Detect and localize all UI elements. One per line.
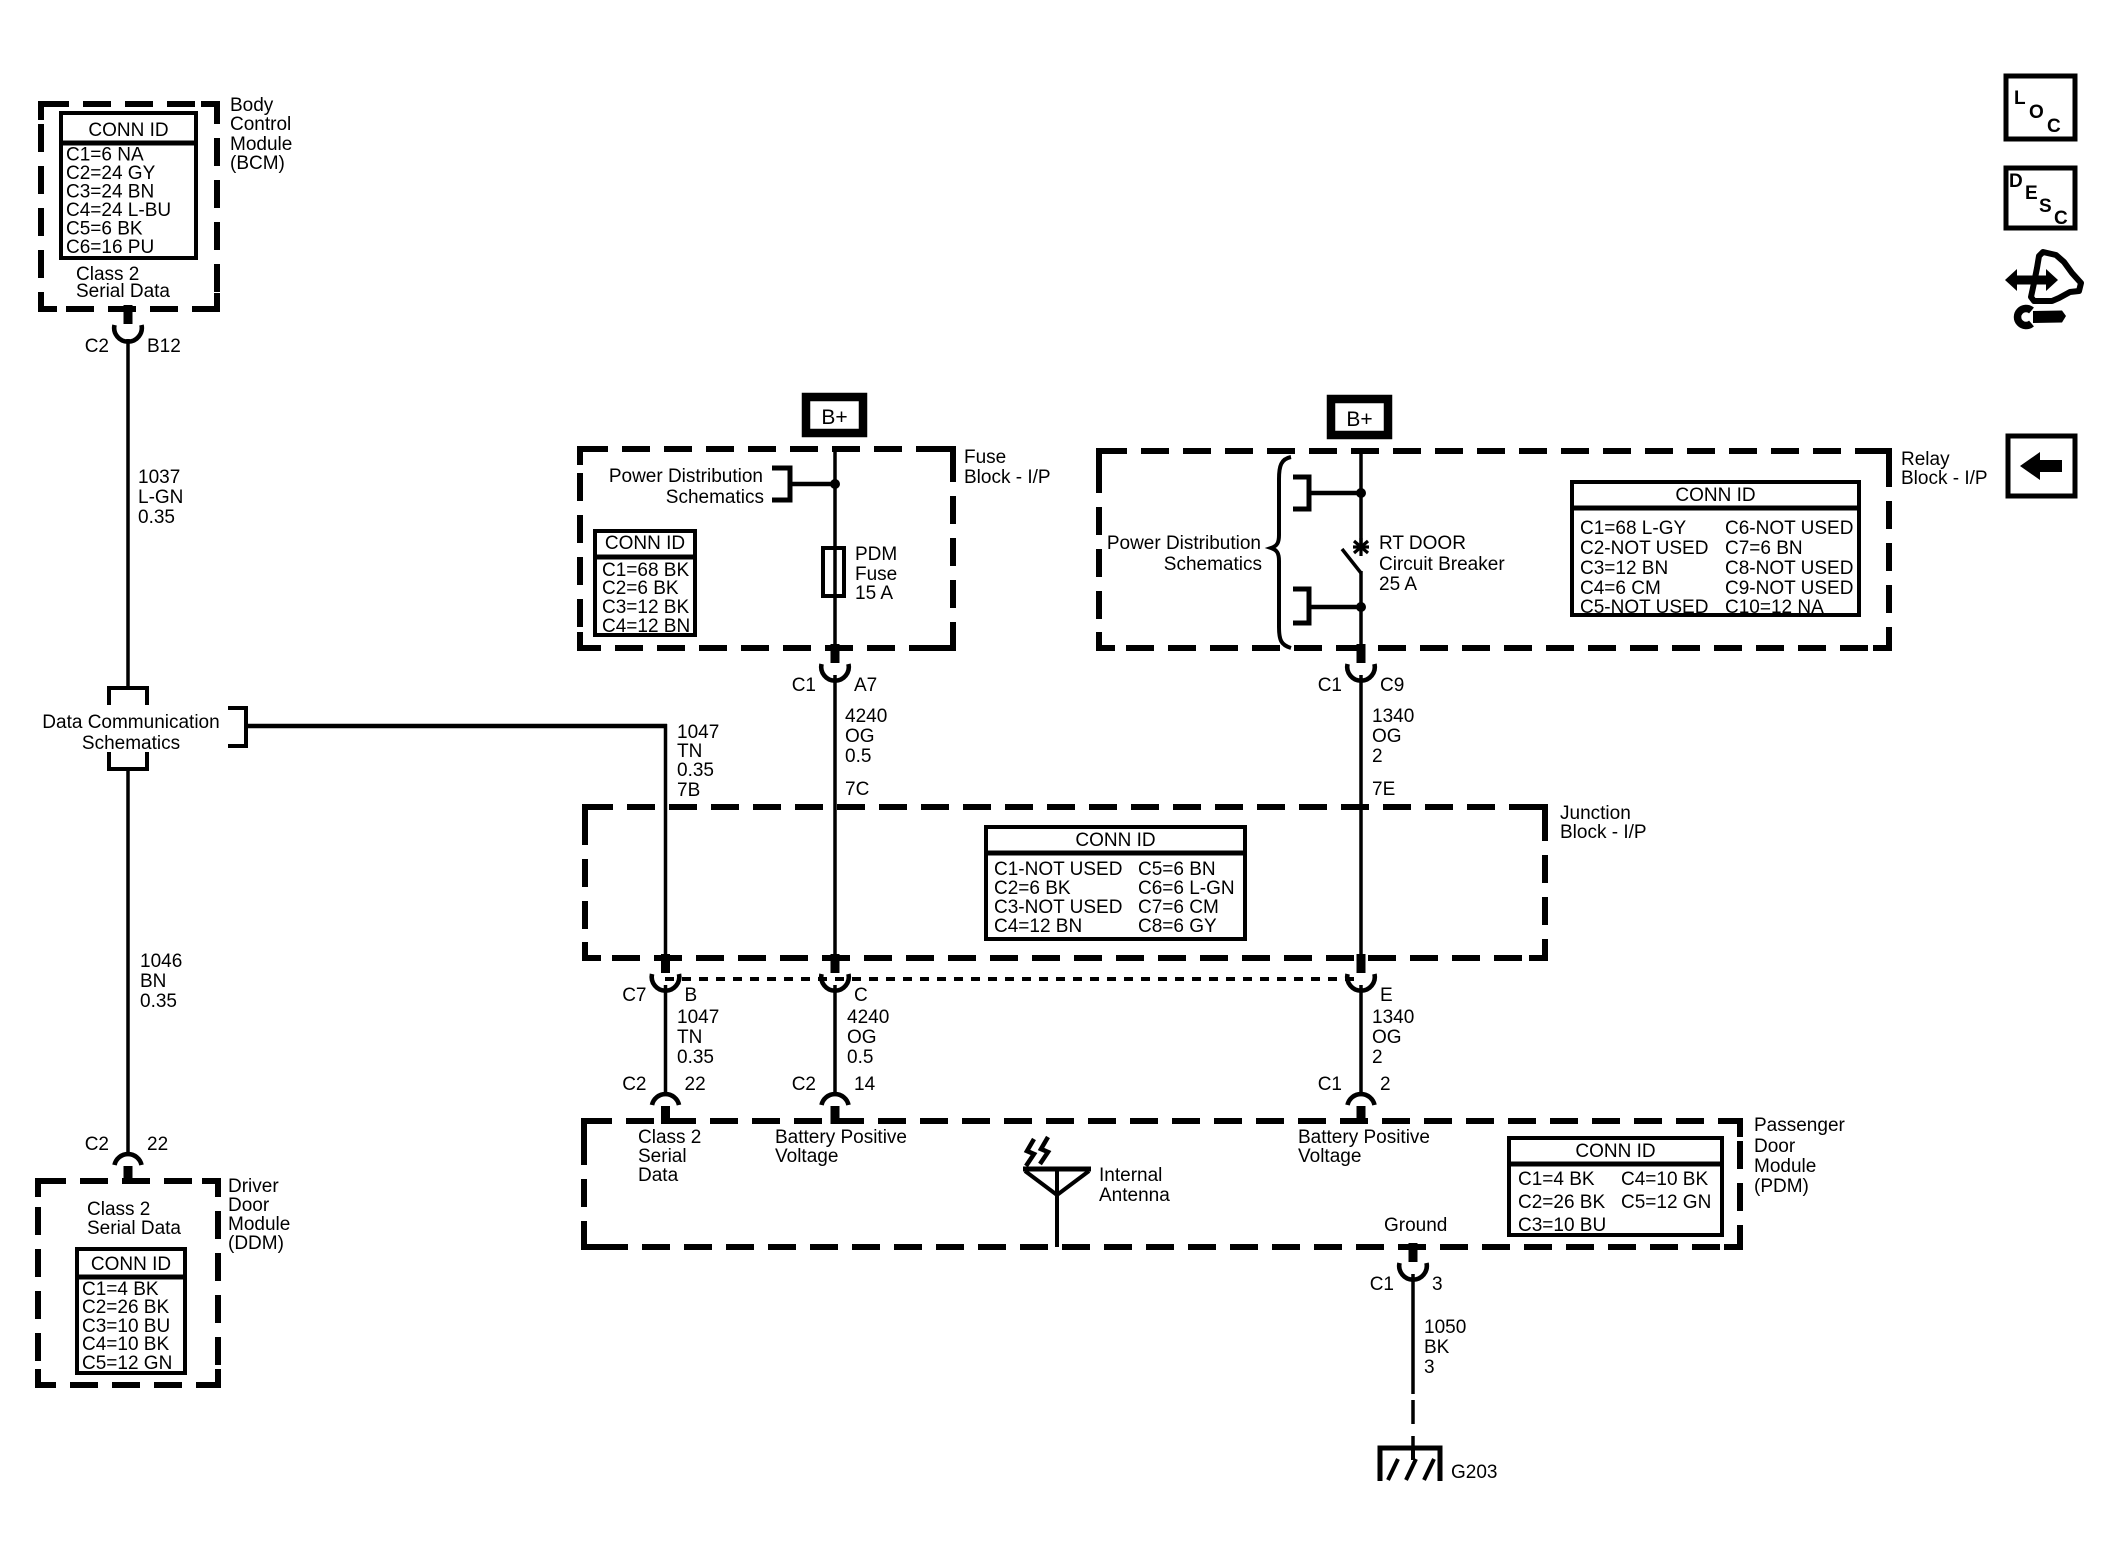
wire 4240 OG junction to PDM [833,985,837,1094]
wire 1340 OG from relay block to junction block [1359,675,1363,807]
svg-text:22: 22 [685,1074,706,1095]
svg-text:Schematics: Schematics [666,487,764,508]
wire from Data Communication Schematics bracket to junction block node B [246,724,667,729]
svg-text:Block - I/P: Block - I/P [1901,468,1988,489]
wire 1037 L-GN from BCM C2/B12 down to Data Communication Schematics [126,339,130,686]
svg-text:C4=10 BK: C4=10 BK [82,1334,169,1355]
svg-text:C2: C2 [85,336,109,357]
svg-text:Internal: Internal [1099,1165,1162,1186]
internal antenna symbol [1023,1137,1091,1247]
svg-text:A7: A7 [854,675,877,696]
svg-text:0.35: 0.35 [140,991,177,1012]
svg-text:14: 14 [854,1074,876,1095]
module box BCM (Body Control Module) dashed outline [41,104,217,309]
svg-text:0.35: 0.35 [677,1047,714,1068]
svg-text:4240: 4240 [845,706,887,727]
CONN ID table of PDM [1507,1138,1724,1236]
wire label 1340 OG 2 (lower) [1372,1007,1414,1068]
svg-text:CONN ID: CONN ID [88,120,168,141]
svg-text:Fuse: Fuse [964,447,1006,468]
svg-text:(DDM): (DDM) [228,1233,284,1254]
svg-text:TN: TN [677,741,702,762]
icon back-arrow box [2008,436,2075,496]
svg-text:0.35: 0.35 [677,760,714,781]
svg-text:1050: 1050 [1424,1317,1466,1338]
svg-text:0.5: 0.5 [845,746,871,767]
svg-text:Module: Module [228,1214,290,1235]
upper pickup bracket [1293,477,1309,509]
svg-text:C3=12 BN: C3=12 BN [1580,558,1668,579]
svg-text:1046: 1046 [140,951,182,972]
svg-text:C2: C2 [622,1074,646,1095]
svg-text:7C: 7C [845,779,869,800]
svg-text:L: L [2014,88,2026,109]
svg-text:C3=12 BK: C3=12 BK [602,597,689,618]
svg-text:Serial: Serial [638,1146,687,1167]
svg-text:Module: Module [1754,1156,1816,1177]
power feed B+ (fuse block) [806,397,863,433]
svg-text:CONN ID: CONN ID [91,1254,171,1275]
svg-text:C9-NOT USED: C9-NOT USED [1725,578,1853,599]
fuse PDM Fuse 15 A [823,544,897,648]
svg-text:1037: 1037 [138,467,180,488]
svg-text:1047: 1047 [677,1007,719,1028]
wire 1046 BN from Data Communication Schematics down to DDM [126,769,130,1152]
svg-text:C2: C2 [792,1074,816,1095]
svg-text:C9: C9 [1380,675,1404,696]
svg-text:C8=6 GY: C8=6 GY [1138,916,1217,937]
svg-text:0.35: 0.35 [138,507,175,528]
svg-text:OG: OG [1372,726,1402,747]
svg-text:CONN ID: CONN ID [1075,830,1155,851]
svg-text:OG: OG [845,726,875,747]
svg-text:C1: C1 [1370,1274,1394,1295]
svg-text:C2=6 BK: C2=6 BK [994,878,1071,899]
svg-text:Block - I/P: Block - I/P [964,467,1051,488]
power feed B+ (relay block) [1331,399,1388,435]
wire from breaker down to relay block exit [1359,571,1363,648]
svg-text:Body: Body [230,95,274,116]
connector C1 pin A7 at fuse block [792,644,878,696]
wire label 1050 BK 3 [1424,1317,1466,1378]
svg-text:Voltage: Voltage [1298,1146,1361,1167]
svg-text:PDM: PDM [855,544,897,565]
svg-text:7B: 7B [677,780,700,801]
svg-text:Control: Control [230,114,291,135]
svg-text:C4=10 BK: C4=10 BK [1621,1169,1708,1190]
svg-text:D: D [2009,171,2023,192]
wire label 1047 TN 0.35 (lower) [677,1007,719,1068]
svg-text:C6=6 L-GN: C6=6 L-GN [1138,878,1235,899]
svg-text:C3=10 BU: C3=10 BU [1518,1215,1606,1236]
wire label 1340 OG 2 (upper) [1372,706,1414,767]
svg-text:3: 3 [1424,1357,1435,1378]
CONN ID table of fuse block [593,531,697,637]
svg-text:C7=6 CM: C7=6 CM [1138,897,1219,918]
svg-text:2: 2 [1372,746,1383,767]
svg-text:BK: BK [1424,1337,1450,1358]
svg-text:Driver: Driver [228,1176,279,1197]
svg-text:C8-NOT USED: C8-NOT USED [1725,558,1853,579]
svg-text:C: C [2047,116,2061,137]
relay block I/P dashed outline [1099,451,1889,648]
svg-text:Module: Module [230,134,292,155]
svg-text:C2=26 BK: C2=26 BK [82,1297,169,1318]
connector C2 pin 22 at PDM [622,1074,705,1124]
svg-text:E: E [1380,985,1393,1006]
svg-text:B: B [685,985,698,1006]
svg-text:Relay: Relay [1901,449,1950,470]
svg-text:Door: Door [1754,1136,1796,1157]
icon DESC box [2006,168,2075,229]
svg-text:C1=4 BK: C1=4 BK [1518,1169,1595,1190]
svg-text:CONN ID: CONN ID [1575,1141,1655,1162]
svg-text:Data: Data [638,1165,679,1186]
svg-text:C4=12 BN: C4=12 BN [994,916,1082,937]
wire B+ into circuit breaker [1359,449,1363,546]
connector pin E at junction block [1347,954,1392,1006]
svg-text:C1: C1 [1318,1074,1342,1095]
wire 1050 BK from PDM to ground [1411,1274,1415,1394]
wire label 1046 BN 0.35 [140,951,182,1012]
icon LOC box [2006,76,2075,139]
connector C7 pin B at junction block [622,954,697,1006]
svg-text:B12: B12 [147,336,181,357]
svg-text:C2: C2 [85,1134,109,1155]
svg-text:CONN ID: CONN ID [1675,485,1755,506]
svg-text:E: E [2025,183,2038,204]
svg-text:25 A: 25 A [1379,574,1417,595]
svg-text:G203: G203 [1451,1462,1497,1483]
wire 4240 OG from fuse block to junction block [833,675,837,807]
svg-text:OG: OG [1372,1027,1402,1048]
svg-text:Passenger: Passenger [1754,1115,1846,1136]
svg-text:C1=68 L-GY: C1=68 L-GY [1580,518,1686,539]
svg-text:L-GN: L-GN [138,487,183,508]
wire label 4240 OG 0.5 (upper) [845,706,887,767]
svg-text:C2=6 BK: C2=6 BK [602,578,679,599]
svg-text:CONN ID: CONN ID [605,533,685,554]
junction node on B+ wire [830,479,840,489]
svg-text:Ground: Ground [1384,1215,1447,1236]
svg-text:C5=6 BN: C5=6 BN [1138,859,1216,880]
svg-text:Serial Data: Serial Data [76,281,170,302]
lower pickup bracket [1293,589,1309,623]
svg-text:4240: 4240 [847,1007,889,1028]
svg-text:1340: 1340 [1372,706,1414,727]
svg-text:Serial Data: Serial Data [87,1218,181,1239]
dashed continuation of ground wire [1411,1400,1415,1449]
svg-text:C1: C1 [792,675,816,696]
svg-text:Class 2: Class 2 [87,1199,150,1220]
svg-text:O: O [2029,102,2044,123]
connector C2 pin 14 at PDM [792,1074,876,1124]
svg-text:C5=12 GN: C5=12 GN [1621,1192,1711,1213]
svg-text:C6=16 PU: C6=16 PU [66,237,154,258]
svg-text:3: 3 [1432,1274,1443,1295]
wire 1047 TN junction to PDM [664,985,668,1094]
connector C2 pin 22 at DDM [85,1134,168,1184]
junction block I/P dashed outline [585,807,1545,958]
svg-text:Power Distribution: Power Distribution [1107,533,1261,554]
svg-text:B+: B+ [1346,408,1372,431]
svg-text:Battery Positive: Battery Positive [775,1127,907,1148]
wire 1340 OG junction to PDM [1359,985,1363,1094]
svg-text:C1: C1 [1318,675,1342,696]
svg-text:C4=6 CM: C4=6 CM [1580,578,1661,599]
svg-text:15 A: 15 A [855,583,893,604]
svg-text:C4=12 BN: C4=12 BN [602,616,690,637]
svg-text:C6-NOT USED: C6-NOT USED [1725,518,1853,539]
svg-text:Junction: Junction [1560,803,1631,824]
wire segment C through junction block [833,807,837,958]
wire segment E through junction block [1359,807,1363,958]
svg-text:C7=6 BN: C7=6 BN [1725,538,1803,559]
svg-text:TN: TN [677,1027,702,1048]
module box PDM (Passenger Door Module) dashed outline [584,1121,1740,1247]
svg-text:1047: 1047 [677,722,719,743]
svg-text:Fuse: Fuse [855,564,897,585]
CONN ID table of DDM [75,1249,187,1374]
icon door adjust / wrench [2005,252,2081,326]
svg-text:Block - I/P: Block - I/P [1560,822,1647,843]
svg-text:C: C [2054,208,2068,229]
svg-text:C2=26 BK: C2=26 BK [1518,1192,1605,1213]
svg-text:Power Distribution: Power Distribution [609,466,763,487]
svg-text:22: 22 [147,1134,168,1155]
wire label 1047 TN 0.35 (upper) [677,722,719,781]
connector C2 pin B12 at BCM [85,305,181,357]
svg-text:Data Communication: Data Communication [42,712,219,733]
wire B+ into PDM fuse [833,447,837,549]
connector C1 pin 2 at PDM [1318,1074,1391,1124]
svg-text:C2-NOT USED: C2-NOT USED [1580,538,1708,559]
svg-text:7E: 7E [1372,779,1395,800]
connector C1 pin 3 at PDM ground output [1370,1243,1443,1295]
svg-text:C5-NOT USED: C5-NOT USED [1580,597,1708,618]
svg-text:2: 2 [1380,1074,1391,1095]
svg-text:Door: Door [228,1195,270,1216]
connector C1 pin C9 at relay block [1318,644,1405,696]
svg-text:0.5: 0.5 [847,1047,873,1068]
svg-text:2: 2 [1372,1047,1383,1068]
wire segment B through junction block [664,807,668,958]
svg-text:(PDM): (PDM) [1754,1176,1809,1197]
svg-text:(BCM): (BCM) [230,153,285,174]
connector pin C at junction block [821,954,868,1006]
svg-text:S: S [2039,196,2052,217]
wire label 1037 L-GN 0.35 [138,467,183,528]
svg-text:Circuit Breaker: Circuit Breaker [1379,554,1505,575]
internal bus dotted line in junction block [665,977,1361,981]
CONN ID table of BCM [59,113,198,258]
CONN ID table of relay block [1570,482,1861,618]
svg-text:Voltage: Voltage [775,1146,838,1167]
wire label 4240 OG 0.5 (lower) [847,1007,889,1068]
svg-text:C7: C7 [622,985,646,1006]
module box DDM (Driver Door Module) dashed outline [38,1181,218,1385]
svg-text:RT DOOR: RT DOOR [1379,533,1466,554]
ground symbol G203 [1380,1448,1440,1481]
svg-text:C: C [854,985,868,1006]
svg-text:Antenna: Antenna [1099,1185,1170,1206]
svg-text:1340: 1340 [1372,1007,1414,1028]
svg-text:Schematics: Schematics [82,733,180,754]
svg-text:C5=12 GN: C5=12 GN [82,1353,172,1374]
svg-text:C10=12 NA: C10=12 NA [1725,597,1824,618]
svg-text:Class 2: Class 2 [638,1127,701,1148]
fuse block I/P dashed outline [580,449,953,648]
svg-text:OG: OG [847,1027,877,1048]
svg-text:BN: BN [140,971,166,992]
svg-text:Schematics: Schematics [1164,554,1262,575]
svg-text:C1-NOT USED: C1-NOT USED [994,859,1122,880]
svg-text:C3-NOT USED: C3-NOT USED [994,897,1122,918]
CONN ID table of junction block [984,827,1247,939]
off-page reference Data Communication Schematics [109,688,246,769]
circuit breaker RT DOOR 25 A (switch blade + star) [1342,533,1505,595]
svg-text:B+: B+ [821,406,847,429]
svg-text:Battery Positive: Battery Positive [1298,1127,1430,1148]
